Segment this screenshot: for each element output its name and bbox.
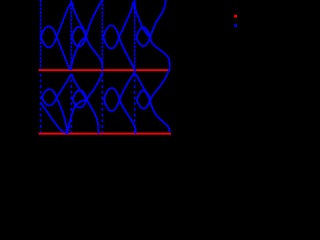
row2 peak V2 rounded cap bbox=[70, 74, 72, 77]
row1 final faller bbox=[150, 37, 170, 69]
row2 final riser bbox=[150, 70, 169, 100]
row2 dotted vertical 1 bbox=[40, 75, 42, 133]
row1 strand C3 to valley V4 bbox=[119, 37, 134, 69]
row2 lens 1 bbox=[42, 89, 57, 105]
row2 descent peak V4 to C4 bbox=[136, 75, 150, 101]
row1 lens 3 bbox=[104, 25, 120, 48]
row1 lens 2 bbox=[72, 27, 86, 47]
row1 dotted vertical 3 bbox=[101, 1, 103, 70]
row1 dotted vertical 1 bbox=[40, 1, 42, 70]
legend red marker bbox=[234, 15, 237, 18]
row2 lens 4 bbox=[137, 90, 150, 108]
row1 strand peak V2 through C2 to valley V3 bbox=[72, 4, 103, 70]
row1 lens 1 bbox=[41, 26, 57, 47]
row1 final riser bbox=[150, 1, 166, 37]
row2 dotted vertical 2 bbox=[70, 75, 72, 133]
row1 strand C1 to peak V2 bbox=[57, 3, 72, 37]
row2 strand peak V2 through C2 to valley V3 bbox=[72, 75, 99, 133]
row2 strand C3 to peak V4 bbox=[120, 70, 135, 100]
row2 lens 3 bbox=[104, 88, 120, 111]
row1 peak V2 rounded cap bbox=[70, 3, 73, 4]
row1 strand C3 to peak V4 bbox=[119, 1, 134, 37]
row1 descent peak V4 to C4 bbox=[135, 4, 150, 38]
row1 lens 4 bbox=[137, 27, 151, 46]
row2 dotted vertical 4 bbox=[134, 75, 136, 133]
row2 strand C3 to valley V4 bbox=[120, 100, 136, 133]
row1 dotted vertical 4 bbox=[134, 1, 136, 70]
row1 strand valley V2 through C2 to peak V3 bbox=[71, 1, 102, 69]
row1 strand C1 to valley V2 bbox=[57, 37, 70, 70]
row2 dotted vertical 3 bbox=[101, 75, 103, 133]
row2 strand C1 to valley V2 bbox=[57, 98, 67, 133]
row2 lens 2 bbox=[73, 90, 87, 107]
row2 strand valley V2 through C2 to peak V3 bbox=[68, 71, 102, 133]
row2 final faller bbox=[150, 101, 170, 133]
legend blue marker bbox=[234, 24, 237, 27]
row2 red baseline bbox=[39, 133, 171, 135]
row1 red baseline bbox=[39, 69, 170, 71]
row1 dotted vertical 2 bbox=[70, 1, 72, 70]
row2 diagonal strand V1 to valley V2 bbox=[41, 103, 67, 133]
row2 strand C1 to peak V2 bbox=[57, 75, 72, 98]
